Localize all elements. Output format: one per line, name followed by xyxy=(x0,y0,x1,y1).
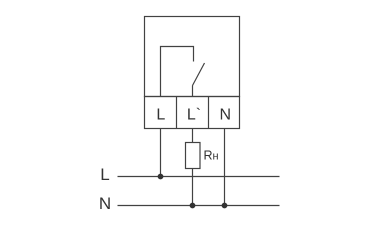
svg-text:N: N xyxy=(99,194,111,213)
svg-text:Rн: Rн xyxy=(204,149,219,163)
svg-text:N: N xyxy=(220,107,232,124)
svg-text:L: L xyxy=(156,107,165,124)
svg-text:L`: L` xyxy=(187,107,201,124)
svg-text:L: L xyxy=(100,165,109,184)
